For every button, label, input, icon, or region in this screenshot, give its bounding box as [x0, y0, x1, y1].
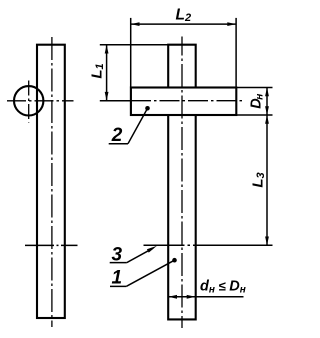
position label 2: leader dot [145, 106, 150, 111]
dimension L3: top arrowhead [265, 115, 269, 124]
left view: rod vertical centerline [51, 37, 53, 327]
left view: circle horizontal centerline [7, 100, 74, 102]
dimension L1: top arrowhead [105, 45, 109, 54]
dimension L1: bottom extension line [100, 100, 131, 102]
right view: rod vertical centerline [181, 37, 183, 329]
dimension L3: dimension line [266, 115, 268, 245]
dimension L2: left arrowhead [131, 22, 140, 26]
dimension Dn: bottom extension line [236, 114, 272, 116]
position label 1: leader dot [172, 258, 177, 263]
dimension L3: bottom arrowhead [265, 237, 269, 246]
position label 3: leader line [127, 248, 153, 262]
dimension L2: extension line left [130, 18, 132, 88]
left view: eyelet circle [14, 86, 43, 115]
dimension L2: dimension line [131, 23, 236, 25]
right view: flange horizontal centerline [125, 100, 243, 102]
left view: anchor rod outline [37, 45, 65, 318]
dimension Dn: dimension line [266, 88, 268, 116]
position label 1: leader line [126, 260, 174, 286]
dimension L1: dimension line [106, 45, 108, 101]
svg-text:1: 1 [112, 268, 123, 289]
right view: embedment chain line [144, 244, 273, 246]
dimension Dn: top extension line [236, 87, 272, 89]
right view: top stub outline [168, 45, 196, 88]
position label 2: leader line [128, 108, 148, 143]
position label 2: shelf [109, 143, 128, 145]
position label 3: leader arrowhead [147, 246, 157, 253]
dimension L2: extension line right [235, 18, 237, 88]
dimension dn: dimension line with shelf [168, 296, 243, 298]
svg-text:dн ≤ Dн: dн ≤ Dн [200, 279, 246, 296]
right view: flange (plate) outline [131, 88, 236, 116]
position label 3: shelf [110, 262, 127, 264]
dimension dn: right arrowhead [187, 295, 196, 299]
dimension Dn: top arrowhead [265, 88, 269, 97]
dimension L1: top extension line [100, 44, 168, 46]
position label 1: shelf [110, 285, 126, 287]
dimension L1: bottom arrowhead [105, 92, 109, 101]
left view: circle vertical centerline [28, 79, 30, 123]
right view: lower rod outline [168, 115, 196, 319]
left view: embedment chain line [25, 244, 78, 246]
dimension L2: right arrowhead [227, 22, 236, 26]
dimension Dn: bottom arrowhead [265, 106, 269, 115]
dimension dn: left arrowhead [168, 295, 177, 299]
